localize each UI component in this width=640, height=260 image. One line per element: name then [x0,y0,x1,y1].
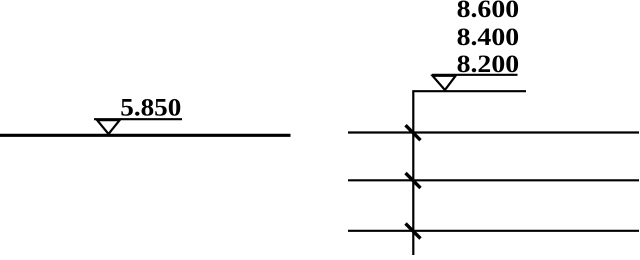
svg-text:8.400: 8.400 [457,24,520,51]
floor line 2 [348,179,639,181]
tick mark 2 [406,173,421,188]
svg-text:8.600: 8.600 [457,0,520,23]
svg-text:5.850: 5.850 [120,94,181,121]
floor line 1 [348,131,639,133]
left ground datum line [0,134,291,137]
floor line 3 [348,230,639,232]
right level symbol horizontal line [432,74,518,76]
tick mark 3 [406,224,421,239]
right level symbol triangle [433,76,456,90]
left level symbol triangle [97,120,119,134]
right leader corner line [413,91,526,255]
left level symbol horizontal line [94,118,182,120]
tick mark 1 [406,125,421,140]
